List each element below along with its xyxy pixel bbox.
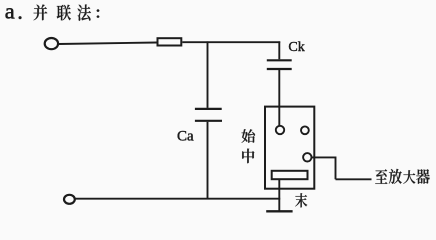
capacitor Ck xyxy=(267,60,292,69)
terminal: top input circle xyxy=(45,38,58,49)
wire: resistor to top rail / Ck branch xyxy=(182,41,280,43)
wire: slot 末 tap down through box to ground xyxy=(278,180,280,211)
svg-text:.: . xyxy=(17,0,23,24)
caption text "a. 并联法：" xyxy=(5,0,99,24)
terminal: bottom input circle xyxy=(64,195,75,204)
wire: top terminal to resistor xyxy=(58,43,157,45)
pin hole 始 (top-left) xyxy=(276,126,284,134)
label: 始 xyxy=(242,129,255,143)
label: 至放大器 (to amplifier) xyxy=(375,169,429,184)
svg-text:Ca: Ca xyxy=(177,129,194,145)
ground xyxy=(266,210,292,212)
coil/head box with taps 始/中/末 xyxy=(265,107,314,189)
wire: Ck down to pin 始 inside box xyxy=(278,70,280,126)
svg-text:Ck: Ck xyxy=(288,40,304,55)
pin hole 中 (right-middle, output) xyxy=(303,153,311,161)
pin hole (top-right) xyxy=(301,126,309,134)
slot/winding bar inside box xyxy=(272,171,308,179)
label: 中 xyxy=(242,149,254,164)
wire: top rail down to Ck xyxy=(278,41,280,59)
label: 末 xyxy=(295,193,307,207)
resistor (series, unlabeled) xyxy=(158,38,182,45)
wire: pin 中 out to amplifier lead xyxy=(312,157,372,180)
capacitor Ca xyxy=(195,109,222,121)
svg-text:a: a xyxy=(5,0,15,24)
wire: Ca to bottom rail xyxy=(207,122,209,200)
wire: top node down to Ca xyxy=(207,41,209,108)
wire: bottom rail xyxy=(75,198,280,200)
